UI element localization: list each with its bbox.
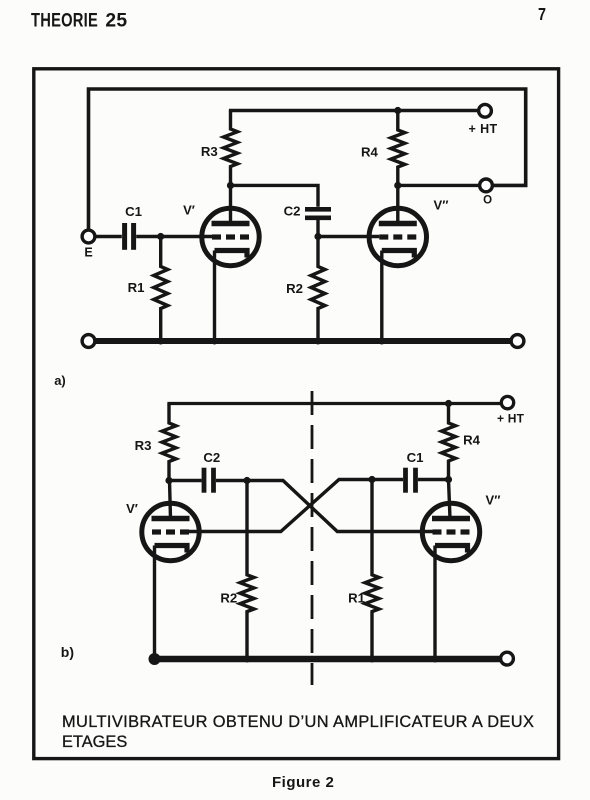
capacitor C1 bbox=[125, 204, 142, 250]
caption: MULTIVIBRATEUR OBTENU D'UN AMPLIFICATEUR A DEUX ETAGES bbox=[62, 713, 534, 751]
svg-text:THEORIE: THEORIE bbox=[31, 8, 98, 31]
svg-text:R4: R4 bbox=[463, 433, 481, 448]
svg-text:MULTIVIBRATEUR OBTENU D’UN AMP: MULTIVIBRATEUR OBTENU D’UN AMPLIFICATEUR… bbox=[62, 713, 534, 731]
node: cathode V2 on ground rail bbox=[378, 338, 385, 345]
resistor R1 bbox=[128, 237, 168, 342]
wire: E to C1 bbox=[95, 235, 122, 238]
page header THEORIE 25 bbox=[31, 8, 127, 31]
wire: +HT supply rail (b) bbox=[167, 402, 501, 405]
svg-text:b): b) bbox=[61, 644, 74, 660]
svg-text:+ HT: + HT bbox=[497, 412, 525, 426]
node: R4 top on +HT rail bbox=[394, 107, 401, 114]
ground rail (a) bbox=[82, 335, 524, 348]
wire: anode V2 to C1 (b) bbox=[418, 478, 449, 481]
wire: C1 to grid of V1 bbox=[136, 235, 213, 238]
label b) bbox=[61, 644, 74, 660]
tube V2 (V'') of b bbox=[422, 480, 500, 561]
wire: anode V1 to C2 (b) bbox=[169, 479, 202, 482]
svg-text:C1: C1 bbox=[407, 450, 424, 465]
resistor R2 (b) bbox=[220, 481, 254, 660]
node: R2 on ground rail (b) bbox=[244, 656, 251, 663]
wire: cathode V2 to ground rail (b) bbox=[433, 546, 436, 660]
terminal +HT (b) bbox=[497, 396, 525, 425]
svg-text:V″: V″ bbox=[434, 198, 449, 213]
svg-text:V′: V′ bbox=[183, 203, 195, 218]
resistor R4 bbox=[361, 111, 405, 184]
figure caption: Figure 2 bbox=[272, 774, 334, 791]
node: R2 on ground rail bbox=[315, 338, 322, 345]
resistor R3 (b) bbox=[135, 404, 176, 481]
node Y: C1 / R1 / grid V1 junction bbox=[368, 476, 375, 483]
svg-text:R4: R4 bbox=[361, 144, 379, 159]
svg-text:R1: R1 bbox=[128, 280, 145, 295]
svg-text:Figure 2: Figure 2 bbox=[272, 774, 334, 791]
svg-text:ETAGES: ETAGES bbox=[62, 733, 127, 751]
node: anode V1 / R3 / C2 (b) bbox=[165, 477, 172, 484]
wire: C2 to grid of V2 bbox=[318, 220, 379, 237]
capacitor C2 bbox=[284, 203, 331, 218]
node X: C2 / R2 / grid V2 junction bbox=[243, 477, 250, 484]
tube V1 (V') of b bbox=[126, 481, 199, 561]
resistor R4 (b) bbox=[442, 404, 481, 480]
svg-text:R2: R2 bbox=[220, 591, 237, 606]
ground rail (b) bbox=[149, 652, 514, 665]
tube V1 (V') bbox=[183, 185, 259, 265]
terminal +HT (a) bbox=[469, 104, 498, 136]
resistor R2 bbox=[286, 239, 325, 341]
wire: cathode V1 to ground rail bbox=[213, 251, 216, 342]
node: anode V2 / R4 / output bbox=[394, 182, 401, 189]
terminal E (input) bbox=[82, 230, 95, 259]
svg-text:+ HT: + HT bbox=[469, 122, 498, 136]
svg-text:O: O bbox=[483, 195, 492, 207]
wire: anode V1 to C2 bbox=[231, 185, 319, 206]
wire: feedback loop from output O back to input E bbox=[89, 89, 526, 231]
svg-text:V′: V′ bbox=[126, 501, 138, 516]
node: R1 on ground rail bbox=[157, 338, 164, 345]
capacitor C2 (b) bbox=[203, 450, 220, 493]
svg-text:R3: R3 bbox=[135, 438, 152, 453]
tube V2 (V'') bbox=[369, 185, 448, 265]
terminal O (output) bbox=[480, 179, 493, 207]
node: R4 top on +HT rail (b) bbox=[445, 400, 452, 407]
svg-text:V″: V″ bbox=[486, 493, 501, 508]
wire: cathode V1 to ground rail (b) bbox=[153, 546, 156, 660]
label a) bbox=[54, 373, 66, 388]
svg-text:E: E bbox=[84, 246, 92, 260]
resistor R1 (b) bbox=[348, 480, 379, 660]
svg-text:25: 25 bbox=[105, 9, 127, 31]
svg-text:a): a) bbox=[54, 373, 66, 388]
node: R1 on ground rail (b) bbox=[369, 656, 376, 663]
node: anode V1 / R3 / C2 bbox=[227, 182, 234, 189]
node: cathode V2 on ground rail (b) bbox=[432, 656, 439, 663]
node: grid junction C2/R2 bbox=[314, 233, 321, 240]
resistor R3 bbox=[201, 111, 238, 184]
svg-text:R3: R3 bbox=[201, 144, 218, 159]
wire: cross-coupling node Y to grid of V1 bbox=[189, 480, 372, 532]
capacitor C1 (b) bbox=[406, 450, 424, 493]
svg-text:7: 7 bbox=[538, 4, 546, 24]
svg-text:R1: R1 bbox=[348, 591, 365, 606]
page number 7 bbox=[538, 4, 546, 24]
svg-text:C1: C1 bbox=[125, 204, 142, 219]
wire: anode V2 to terminal O bbox=[398, 184, 480, 187]
svg-text:R2: R2 bbox=[286, 281, 303, 296]
wire: C2 to node X bbox=[216, 479, 247, 482]
wire: cross-coupling node X to grid of V2 bbox=[247, 481, 433, 532]
wire: cathode V2 to ground rail bbox=[380, 251, 383, 342]
axis of symmetry (dashed) bbox=[311, 391, 314, 685]
wire: C1 to node Y bbox=[372, 478, 403, 481]
node: cathode V1 on ground rail bbox=[211, 338, 218, 345]
node: anode V2 / R4 / C1 (b) bbox=[445, 476, 452, 483]
svg-text:C2: C2 bbox=[284, 203, 301, 218]
svg-text:C2: C2 bbox=[203, 450, 220, 465]
wire: +HT supply rail (a) bbox=[229, 109, 479, 112]
node: grid junction C1/R1 bbox=[157, 233, 164, 240]
